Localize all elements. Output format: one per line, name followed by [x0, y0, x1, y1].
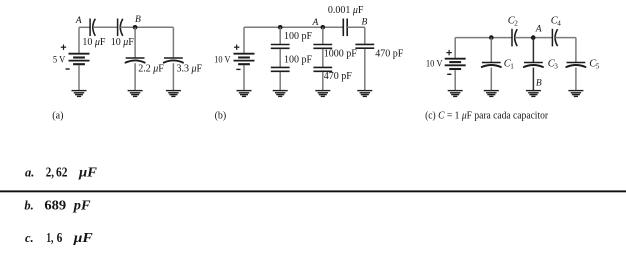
node A label (a): [75, 16, 82, 26]
svg-text:A: A: [311, 18, 318, 28]
svg-text:2,: 2,: [46, 165, 54, 180]
wire C3 to ground (black): [532, 68, 534, 91]
svg-text:3: 3: [554, 63, 558, 71]
node B label (a): [135, 15, 141, 25]
V2 minus sign: [236, 68, 240, 70]
label 470 pF lower: [324, 71, 353, 82]
value 2.2 uF: [138, 63, 164, 74]
wire rail a2: [93, 26, 118, 28]
ground under 100pF branch: [273, 91, 288, 97]
svg-text:4: 4: [557, 20, 561, 28]
svg-text:1: 1: [510, 63, 514, 71]
wire 100pF lower to ground: [279, 72, 281, 90]
svg-text:2: 2: [514, 20, 518, 28]
svg-text:470 pF: 470 pF: [324, 71, 353, 82]
label 100 pF lower: [284, 54, 313, 65]
node B label (c): [536, 79, 542, 89]
answer option a: [25, 165, 98, 180]
capacitor 470pF right: [355, 44, 374, 48]
label 1000 pF: [324, 48, 358, 59]
node A junction dot (c): [531, 35, 536, 40]
V1 value label 5 V: [53, 56, 66, 66]
svg-text:b.: b.: [24, 199, 33, 213]
svg-text:(a): (a): [52, 110, 63, 121]
wire rail c2: [515, 37, 553, 39]
wire rail c1: [455, 37, 512, 39]
wire node B down: [134, 27, 136, 58]
ground under 470pF right: [357, 91, 372, 97]
V2 bottom wire: [243, 65, 245, 90]
svg-text:5: 5: [596, 63, 600, 71]
battery V3 10V: [445, 59, 466, 69]
capacitor C1: [482, 63, 501, 68]
answer option b: [24, 199, 91, 214]
capacitor 10uF first: [90, 19, 95, 37]
svg-text:μF: μF: [78, 165, 98, 180]
ground under V3: [448, 91, 463, 97]
svg-text:100 pF: 100 pF: [284, 54, 313, 65]
svg-text:10 V: 10 V: [214, 56, 230, 66]
wire 470pF lower to ground: [322, 72, 324, 90]
svg-text:A: A: [75, 16, 82, 26]
V3 minus sign: [447, 73, 451, 75]
ground under C1: [484, 91, 499, 97]
capacitor 2.2uF: [126, 58, 145, 63]
wire rail b1: [244, 26, 343, 28]
V2 plus sign: [234, 45, 239, 50]
svg-text:5 V: 5 V: [53, 56, 66, 66]
value 10 uF second: [111, 37, 135, 48]
wire 470pF right to ground: [364, 49, 366, 90]
svg-text:6: 6: [57, 231, 63, 246]
wire right branch down (b): [364, 27, 366, 44]
svg-text:pF: pF: [73, 199, 91, 214]
voltage source V2 10V top wire: [243, 27, 245, 53]
capacitor 100pF lower: [271, 67, 290, 71]
ground under V1: [72, 91, 87, 97]
label C1: [504, 58, 515, 70]
ground under node A branch: [315, 91, 330, 97]
label 100 pF upper: [284, 31, 313, 42]
capacitor 0.001uF: [343, 19, 347, 37]
value 10 uF first: [82, 37, 106, 48]
label 0.001 uF: [328, 5, 364, 16]
svg-text:62: 62: [56, 165, 68, 180]
V3 plus sign: [446, 50, 451, 55]
ground under C3: [526, 91, 541, 97]
svg-text:B: B: [361, 18, 367, 28]
V3 bottom wire: [454, 70, 456, 90]
capacitor 100pF upper: [271, 45, 290, 49]
wire C5 to ground: [575, 68, 577, 91]
node A label (b): [311, 18, 318, 28]
battery V2 10V: [234, 54, 255, 64]
node A label (c): [535, 24, 542, 34]
junction dot C1 branch: [489, 35, 494, 40]
capacitor 3.3uF: [164, 58, 183, 63]
wire between 100pF capacitors: [279, 49, 281, 67]
svg-text:B: B: [135, 15, 141, 25]
svg-text:c.: c.: [25, 231, 34, 245]
wire rail a1: [79, 26, 90, 28]
value 3.3 uF: [177, 63, 203, 74]
wire 2.2uF to ground: [134, 63, 136, 90]
capacitor C5: [566, 63, 585, 68]
capacitor 10uF second: [118, 19, 123, 37]
wire first branch upper (b): [279, 27, 281, 44]
svg-text:a.: a.: [25, 165, 34, 179]
svg-text:470 pF: 470 pF: [375, 48, 404, 59]
V2 value label 10 V: [214, 56, 230, 66]
voltage source V1 5V top wire: [78, 27, 80, 53]
capacitor C3: [524, 63, 543, 68]
capacitor 470pF lower: [313, 67, 332, 71]
node B junction dot: [133, 25, 138, 30]
svg-text:B: B: [536, 79, 542, 89]
wire right branch down (a): [172, 27, 174, 58]
svg-text:μF: μF: [73, 231, 94, 246]
label C4: [551, 16, 562, 28]
wire node A down (b): [322, 27, 324, 44]
wire C1 branch down: [490, 38, 492, 63]
wire node A to C3 (black): [532, 38, 534, 63]
wire rail a3: [120, 26, 173, 28]
label C3: [548, 58, 559, 70]
svg-text:10 V: 10 V: [426, 60, 443, 70]
answer option c: [25, 231, 94, 246]
label 470 pF right: [375, 48, 404, 59]
caption (a): [52, 110, 63, 121]
wire C1 to ground: [490, 68, 492, 91]
separator rule: [0, 190, 626, 192]
label C2: [508, 16, 519, 28]
V1 plus sign: [61, 45, 66, 50]
svg-text:(b): (b): [215, 110, 227, 121]
wire 3.3uF to ground: [172, 63, 174, 90]
junction dot first branch (b): [278, 25, 283, 30]
node B label (b): [361, 18, 367, 28]
wire rail c3: [555, 37, 576, 39]
capacitor C2: [512, 29, 517, 47]
wire C5 branch down: [575, 38, 577, 63]
V1 minus sign: [66, 68, 70, 70]
V3 value label 10 V: [426, 60, 443, 70]
battery V1 5V: [69, 54, 90, 64]
voltage source V3 10V top wire: [454, 38, 456, 58]
caption (b): [215, 110, 227, 121]
svg-text:1000 pF: 1000 pF: [324, 48, 358, 59]
svg-text:689: 689: [44, 199, 66, 214]
ground under V2: [237, 91, 252, 97]
svg-text:1,: 1,: [46, 231, 53, 246]
node A junction dot (b): [321, 25, 326, 30]
label C5: [589, 58, 600, 70]
ground under 2.2uF: [128, 91, 143, 97]
capacitor 1000pF: [313, 45, 332, 49]
V1 bottom wire: [78, 65, 80, 90]
svg-text:2.2 μF: 2.2 μF: [138, 63, 164, 74]
svg-text:3.3 μF: 3.3 μF: [177, 63, 203, 74]
capacitor C4: [552, 29, 557, 47]
ground under C5: [568, 91, 583, 97]
svg-text:(c) C = 1 μF para cada capacit: (c) C = 1 μF para cada capacitor: [425, 110, 549, 121]
svg-text:100 pF: 100 pF: [284, 31, 313, 42]
svg-text:10 μF: 10 μF: [82, 37, 106, 48]
svg-text:0.001 μF: 0.001 μF: [328, 5, 364, 16]
wire 1000pF to 470pF: [322, 49, 324, 67]
svg-text:A: A: [535, 24, 542, 34]
svg-text:10 μF: 10 μF: [111, 37, 135, 48]
caption (c): [425, 110, 549, 121]
ground under 3.3uF: [166, 91, 181, 97]
wire rail b2: [347, 26, 365, 28]
